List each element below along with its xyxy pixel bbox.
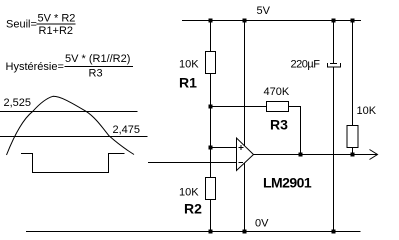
capacitor C1 220uF : top lead [333,21,335,64]
svg-text:R3: R3 [89,68,103,80]
node: R3 / output [299,153,303,157]
node: divider / + input [209,146,213,150]
node: rail / op-amp supply [243,19,247,23]
wire: divider to R3 [211,106,267,108]
svg-text:5V * R2: 5V * R2 [38,13,76,25]
node: rail / pull-up [351,19,355,23]
op-amp + mark [239,147,244,149]
svg-text:10K: 10K [357,105,377,117]
capacitor C1 top plate [330,63,337,65]
svg-text:R1: R1 [179,75,197,91]
threshold line 2,525 [0,111,138,113]
node: divider / R3 feedback [209,105,213,109]
wire: op-amp output [254,154,378,156]
sine input waveform [7,96,135,155]
svg-text:0V: 0V [255,218,269,230]
resistor R3 [267,102,289,112]
svg-text:R2: R2 [184,201,202,217]
capacitor C1 bottom plate (bracket) [328,63,341,67]
svg-text:5V: 5V [257,5,271,17]
node: 0V / op-amp supply [243,230,247,234]
5V rail [182,20,361,22]
node: 0V / capacitor [332,230,336,234]
wire: op-amp supply (5V to 0V through symbol) [244,21,246,232]
node: rail / R1 [209,19,213,23]
svg-text:10K: 10K [179,59,199,71]
formula Seuil [6,13,76,38]
node: rail / capacitor [332,19,336,23]
svg-text:R1+R2: R1+R2 [39,25,74,37]
node: pull-up / output [351,153,355,157]
resistor R1 [206,52,216,74]
svg-text:LM2901: LM2901 [263,175,312,191]
svg-text:R3: R3 [270,117,288,133]
svg-text:220µF: 220µF [291,59,321,71]
node: 0V / R2 [209,230,213,234]
op-amp - mark [239,162,244,164]
resistor 10K pull-up [347,126,358,148]
svg-text:2,525: 2,525 [4,97,32,109]
svg-text:5V * (R1//R2): 5V * (R1//R2) [65,53,130,65]
threshold line 2,475 [0,136,148,138]
wire: divider to + input [211,147,237,149]
comparator output waveform [21,154,125,173]
wire: pull-up to output [352,148,354,155]
svg-text:Hystérésie=: Hystérésie= [6,61,64,73]
svg-text:10K: 10K [179,187,199,199]
0V rail [26,231,361,233]
op-amp U1 LM2901 triangle [237,138,254,171]
svg-text:2,475: 2,475 [113,124,141,136]
svg-text:470K: 470K [264,86,290,98]
capacitor C1 bottom lead to 0V [333,67,335,232]
output arrowhead [370,150,378,160]
formula Hysteresis [6,53,134,80]
wire: R1 to R2 (divider chain) [210,74,212,178]
wire: R3 to output node [289,107,301,155]
svg-text:Seuil=: Seuil= [6,19,37,31]
wire: 5V to R1 [210,21,212,52]
wire: R2 to 0V [210,200,212,232]
wire: signal input to - input [148,162,236,164]
wire: 5V to pull-up resistor [352,21,354,126]
resistor R2 [206,178,216,200]
